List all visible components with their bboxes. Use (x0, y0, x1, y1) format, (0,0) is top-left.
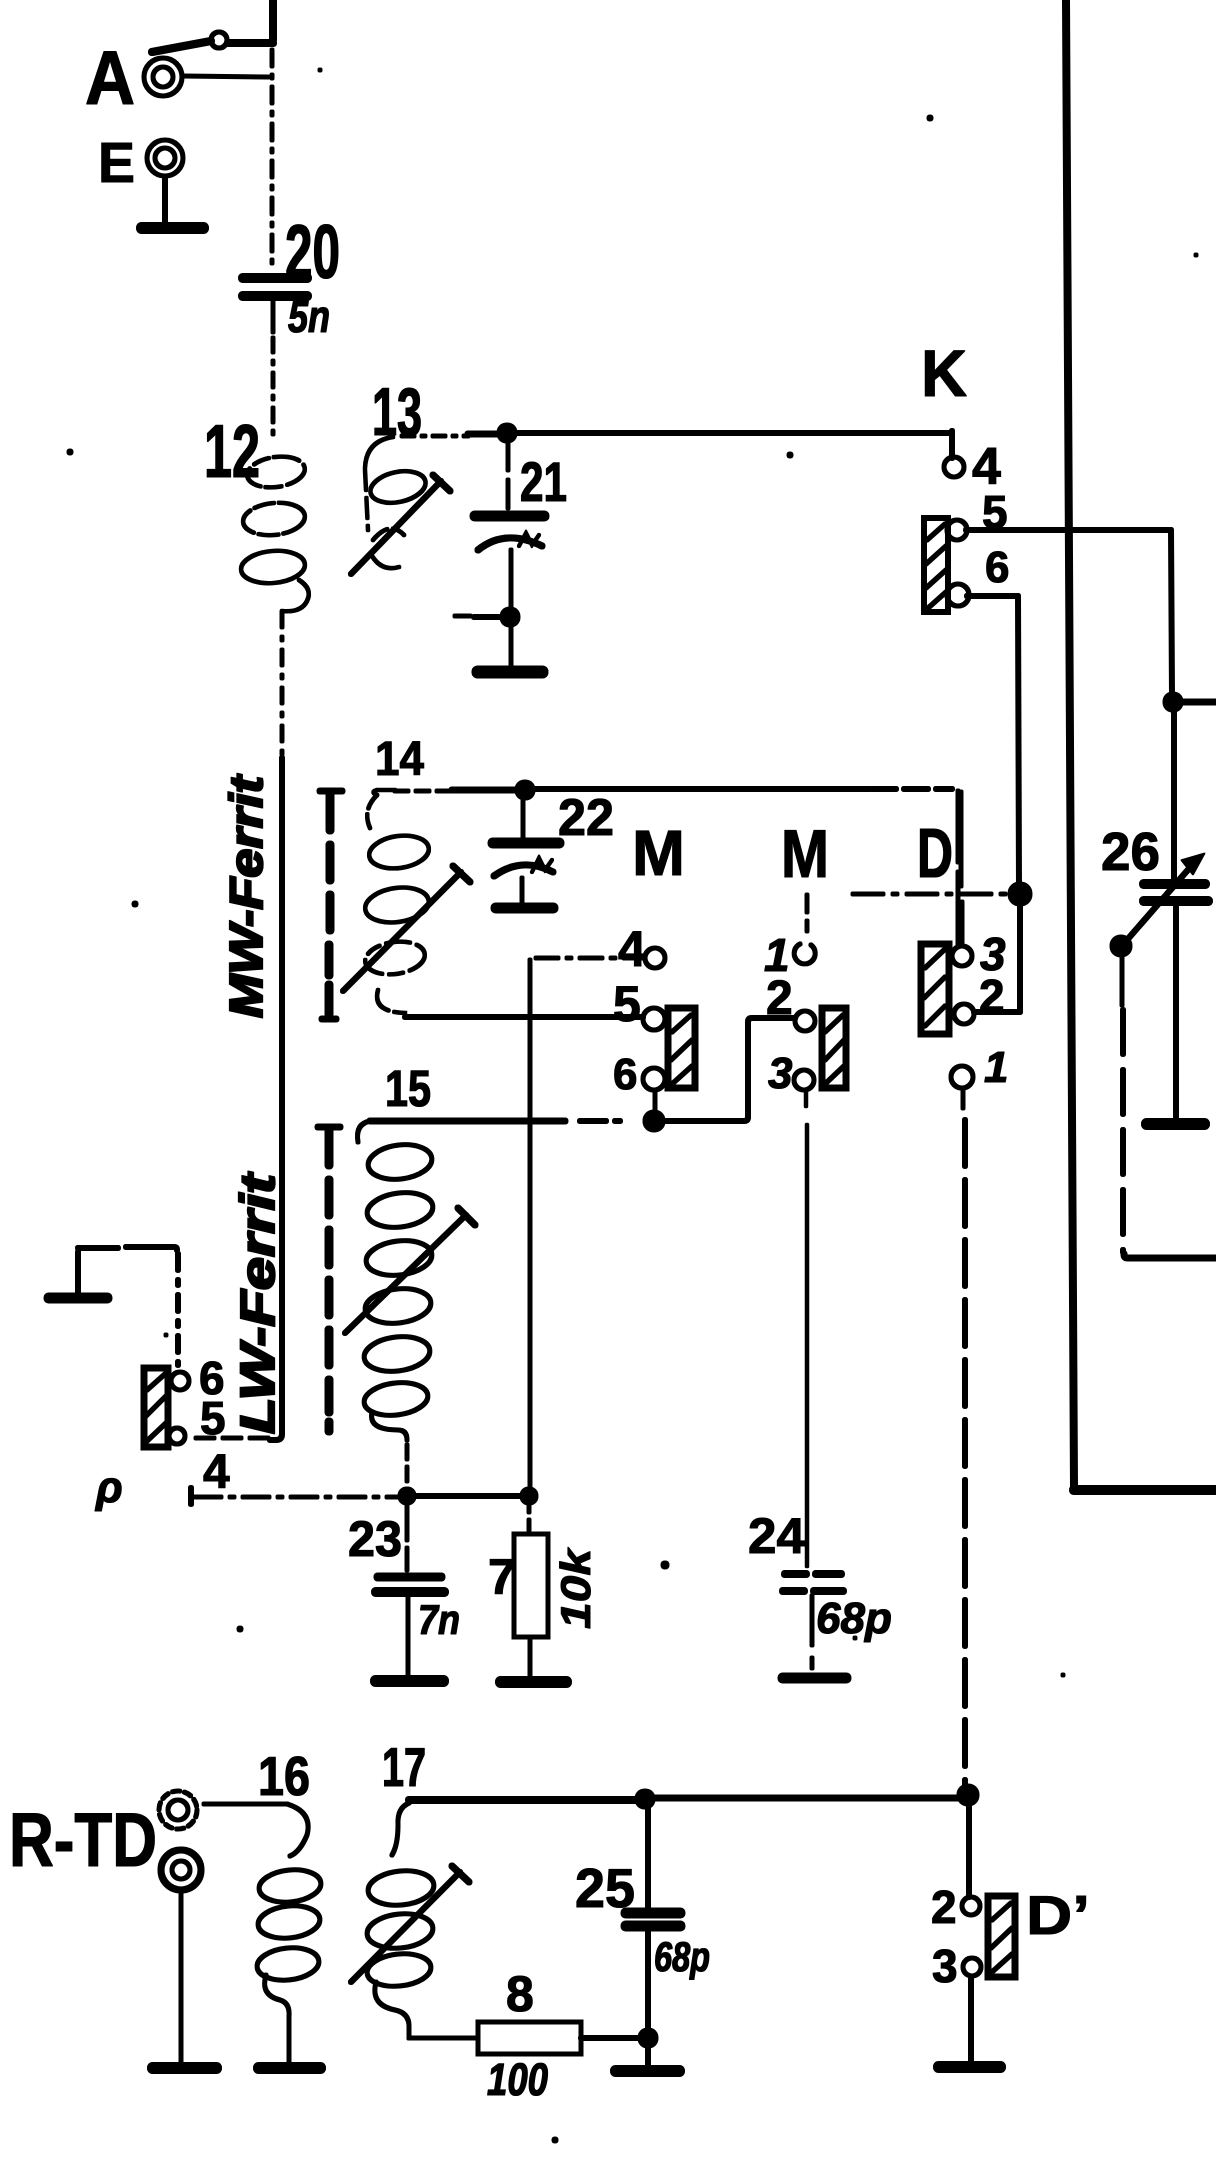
svg-text:2: 2 (931, 1881, 957, 1933)
svg-text:4: 4 (203, 1446, 230, 1499)
svg-text:17: 17 (382, 1736, 426, 1798)
svg-text:7n: 7n (418, 1596, 460, 1643)
svg-text:5: 5 (982, 486, 1008, 538)
svg-text:8: 8 (506, 1966, 534, 2022)
svg-text:21: 21 (520, 450, 567, 513)
svg-text:A: A (85, 36, 135, 121)
svg-text:68p: 68p (816, 1594, 892, 1643)
svg-text:15: 15 (385, 1060, 431, 1117)
svg-text:3: 3 (768, 1049, 792, 1098)
svg-text:R-TD: R-TD (9, 1798, 157, 1883)
svg-text:M: M (781, 816, 829, 892)
svg-text:26: 26 (1101, 822, 1160, 882)
svg-text:20: 20 (285, 210, 340, 295)
svg-text:12: 12 (204, 409, 260, 493)
svg-text:3: 3 (932, 1940, 958, 1992)
svg-text:68p: 68p (654, 1933, 710, 1980)
svg-text:D’: D’ (1026, 1884, 1090, 1946)
svg-text:10k: 10k (552, 1546, 599, 1629)
svg-text:5: 5 (613, 976, 641, 1032)
svg-text:5n: 5n (288, 291, 330, 342)
svg-text:24: 24 (748, 1508, 805, 1564)
svg-text:23: 23 (348, 1511, 402, 1567)
svg-text:7: 7 (488, 1549, 516, 1605)
svg-text:100: 100 (487, 2054, 548, 2105)
svg-text:ρ: ρ (94, 1463, 123, 1512)
svg-text:2: 2 (979, 970, 1005, 1022)
svg-text:E: E (98, 131, 135, 195)
svg-text:16: 16 (258, 1745, 310, 1807)
svg-text:MW-Ferrit: MW-Ferrit (220, 774, 272, 1018)
svg-text:5: 5 (200, 1392, 226, 1444)
svg-text:6: 6 (613, 1050, 637, 1099)
svg-text:K: K (921, 336, 967, 410)
svg-text:6: 6 (985, 543, 1009, 592)
svg-text:1: 1 (984, 1043, 1008, 1092)
svg-text:22: 22 (558, 789, 614, 847)
svg-text:4: 4 (618, 921, 646, 977)
svg-text:14: 14 (375, 733, 424, 786)
svg-text:2: 2 (766, 972, 793, 1025)
svg-text:M: M (632, 817, 685, 889)
svg-text:13: 13 (372, 374, 422, 450)
svg-text:25: 25 (575, 1857, 635, 1919)
svg-text:D: D (917, 814, 953, 892)
svg-text:LW-Ferrit: LW-Ferrit (232, 1171, 285, 1434)
